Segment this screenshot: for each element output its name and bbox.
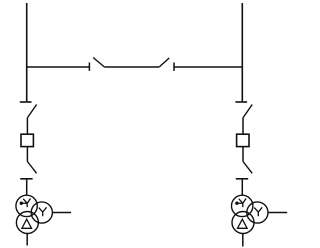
left bus — [26, 3, 28, 101]
wire: T1 secondary lead — [26, 234, 28, 246]
disconnect S1 fixed contact (tick) — [88, 63, 90, 71]
transformer T1 tertiary winding (wye) — [31, 202, 52, 223]
wire: tie line left segment — [27, 66, 90, 68]
wire: CB1 to disconnect S4 — [26, 147, 28, 162]
disconnect S3 fixed contact (tick) — [20, 101, 32, 103]
wire: tie line right segment — [174, 66, 242, 68]
wire: T1 tertiary lead — [52, 212, 71, 214]
wire: S3 to breaker CB1 — [26, 118, 28, 135]
wire: tie line middle segment — [104, 66, 159, 68]
transformer T2 neutral point dot — [235, 202, 243, 205]
disconnect S3 blade (open) — [28, 105, 37, 118]
wire: S4 to transformer T1 — [26, 179, 28, 196]
wire: T2 secondary lead — [242, 234, 244, 247]
disconnect S6 blade (open) — [243, 162, 252, 174]
circuit breaker CB1 — [21, 134, 33, 146]
disconnect S1 blade (open) — [93, 58, 104, 67]
wire: T2 tertiary lead — [268, 212, 287, 214]
circuit breaker CB2 — [237, 134, 249, 146]
disconnect S6 fixed contact (tick) — [236, 178, 248, 180]
transformer T2 secondary winding (delta) — [232, 212, 254, 234]
disconnect S4 blade (open) — [27, 162, 36, 174]
wire: S5 to breaker CB2 — [242, 118, 244, 135]
disconnect S2 blade (open) — [159, 58, 169, 67]
disconnect S5 fixed contact (tick) — [235, 101, 247, 103]
transformer T2 tertiary winding (wye) — [247, 202, 268, 223]
disconnect S4 fixed contact (tick) — [20, 178, 32, 180]
right bus — [241, 3, 243, 101]
transformer T1 neutral point dot — [20, 202, 28, 205]
transformer T2 primary winding (wye) — [232, 195, 253, 216]
disconnect S2 fixed contact (tick) — [173, 63, 175, 71]
wire: S6 to transformer T2 — [241, 179, 243, 196]
transformer T1 primary winding (wye) — [16, 195, 37, 216]
wire: CB2 to disconnect S6 — [242, 147, 244, 162]
disconnect S5 blade (open) — [243, 105, 252, 118]
transformer T1 secondary winding (delta) — [16, 212, 38, 234]
